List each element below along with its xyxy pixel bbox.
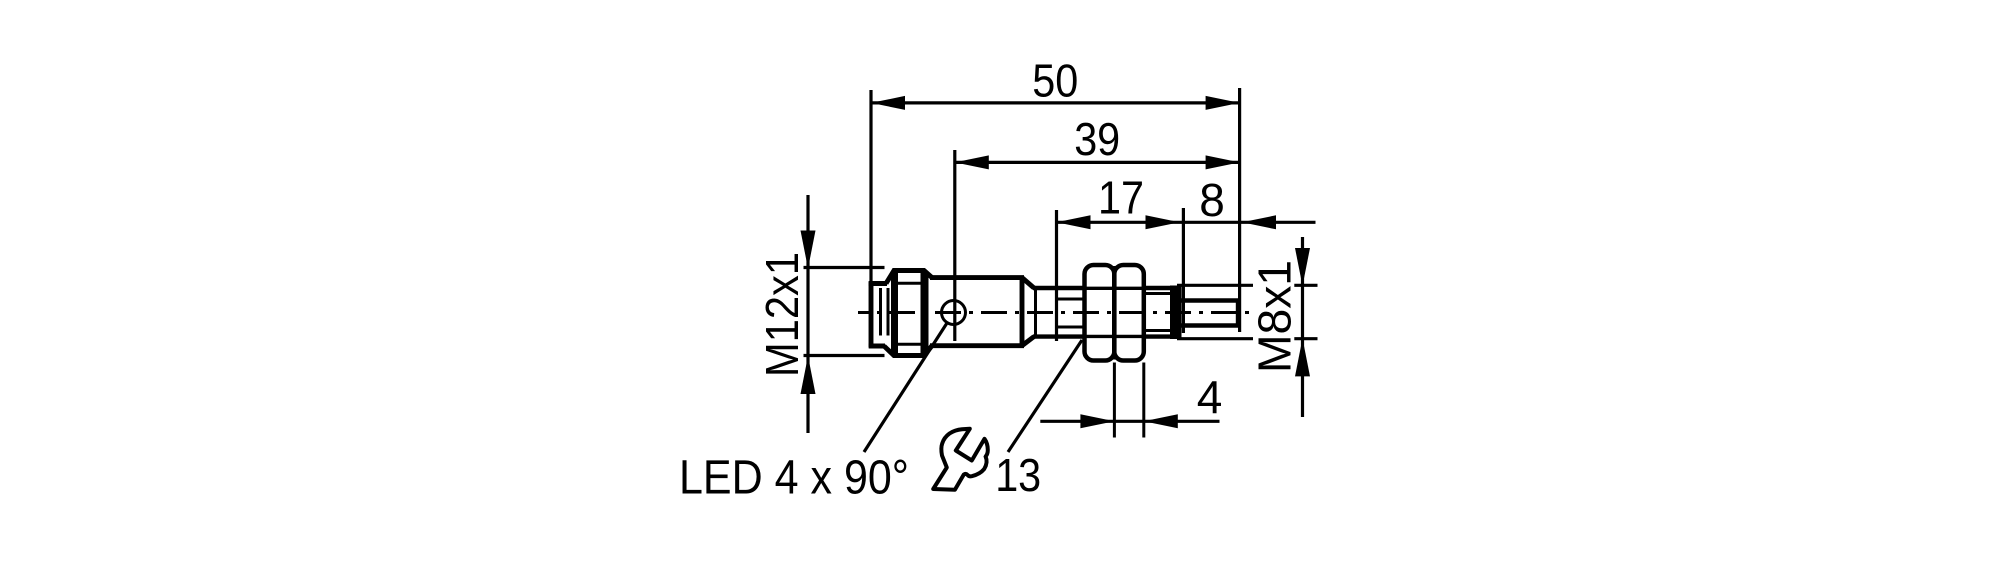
arrowhead dim 8 bbox=[1242, 215, 1276, 229]
arrowhead dim 50 left bbox=[871, 96, 905, 110]
LED window circle bbox=[942, 301, 966, 325]
dim 50/39/8 ext right bbox=[1238, 88, 1241, 332]
dim M12x1 arrow line bbox=[806, 195, 809, 433]
arrowhead M8x1 bottom bbox=[1295, 338, 1310, 376]
svg-text:50: 50 bbox=[1032, 55, 1078, 107]
center line bbox=[858, 311, 1252, 314]
dim 17 ext left bbox=[1055, 210, 1058, 341]
svg-text:LED 4 x 90°: LED 4 x 90° bbox=[679, 452, 909, 505]
hex nut 1 bbox=[1085, 265, 1115, 361]
dim 4 ext lines bbox=[1113, 363, 1116, 438]
M12 connector left face bbox=[869, 282, 887, 348]
dim 17 line + 8 tail bbox=[1057, 221, 1316, 224]
LED leader line bbox=[864, 323, 947, 452]
arrowhead dim 17 left bbox=[1057, 215, 1091, 229]
arrowhead dim 4 left bbox=[1080, 414, 1114, 428]
nut shared edge bbox=[1112, 266, 1116, 360]
arrowhead dim 50 right bbox=[1206, 96, 1240, 110]
dim 17/8 ext mid bbox=[1182, 208, 1185, 333]
wrench 13 leader line bbox=[1008, 340, 1082, 452]
neck / thread major lines bbox=[1033, 288, 1086, 337]
hex nut 2 bbox=[1114, 265, 1144, 361]
svg-text:17: 17 bbox=[1098, 172, 1144, 224]
thread lines right window bbox=[1144, 294, 1172, 331]
dim M12x1 ext lines bbox=[804, 266, 885, 269]
wrench icon bbox=[933, 429, 988, 490]
thread lines left window bbox=[1058, 299, 1086, 327]
arrowhead M12x1 bottom bbox=[801, 356, 816, 394]
main body tube bbox=[930, 278, 1024, 346]
thread end collar bbox=[1170, 286, 1182, 340]
arrowhead M8x1 top bbox=[1295, 248, 1310, 286]
svg-text:13: 13 bbox=[995, 449, 1041, 501]
taper body to neck bbox=[1022, 278, 1034, 346]
svg-text:M12x1: M12x1 bbox=[756, 252, 808, 377]
thread right window major lines bbox=[1144, 288, 1172, 337]
arrowhead dim 4 right bbox=[1144, 414, 1178, 428]
M12 flange (hex) outline bbox=[884, 271, 932, 356]
dim 39 ext left (through LED) bbox=[953, 150, 956, 341]
arrowhead dim 39 left bbox=[955, 155, 989, 169]
dim 4 line bbox=[1040, 420, 1219, 423]
neck start vertical bbox=[1034, 288, 1037, 337]
M12 coupling ring lines bbox=[881, 288, 889, 336]
svg-text:4: 4 bbox=[1197, 371, 1223, 423]
tip cylinder bbox=[1179, 299, 1239, 328]
arrowhead dim 17 right bbox=[1146, 215, 1180, 229]
M12 flange facet verticals bbox=[891, 271, 898, 355]
dim 50 line bbox=[871, 101, 1240, 104]
dim M8x1 arrow line bbox=[1301, 237, 1304, 417]
dim 50 ext left bbox=[869, 90, 872, 284]
svg-text:M8x1: M8x1 bbox=[1249, 260, 1301, 373]
svg-text:39: 39 bbox=[1074, 113, 1120, 165]
arrowhead M12x1 top bbox=[801, 231, 816, 269]
nut facet lines bbox=[1086, 288, 1143, 336]
M12 flange facet horizontals bbox=[898, 282, 921, 285]
arrowhead dim 39 right bbox=[1206, 155, 1240, 169]
M8 extension lines bbox=[1177, 285, 1318, 338]
dim 39 line bbox=[955, 161, 1240, 164]
svg-text:8: 8 bbox=[1199, 174, 1225, 226]
